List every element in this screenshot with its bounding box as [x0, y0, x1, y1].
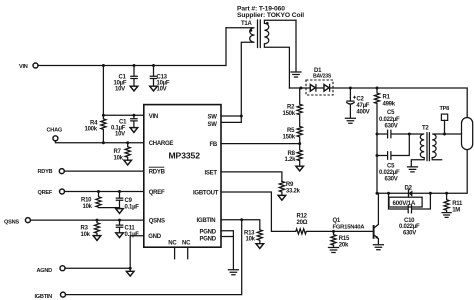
wire GND pin to AGND	[130, 236, 144, 269]
svg-text:T2: T2	[422, 125, 429, 131]
svg-text:VIN: VIN	[149, 114, 158, 120]
wire IGBTIN pin line	[221, 220, 260, 230]
svg-text:NC: NC	[182, 241, 191, 247]
svg-text:IGBTIN: IGBTIN	[35, 294, 53, 300]
wire HV top rail	[289, 88, 467, 118]
svg-text:NC: NC	[168, 241, 177, 247]
capacitor C1 0.1uF	[111, 115, 137, 137]
terminal RDYB	[38, 169, 65, 176]
node VIN-C1 junction	[102, 64, 105, 67]
wire lamp bottom	[377, 150, 467, 194]
ground arrow C11	[116, 233, 124, 238]
resistor R12 20ohm	[296, 214, 373, 234]
node R10-QREF junction	[97, 190, 100, 193]
svg-text:QSNS: QSNS	[4, 220, 19, 226]
capacitor C1 10uF	[114, 66, 138, 93]
svg-text:20k: 20k	[339, 242, 349, 248]
wire QREF line	[65, 191, 144, 193]
svg-text:R5: R5	[287, 128, 295, 134]
svg-text:R13: R13	[244, 230, 255, 236]
lamp CCFL tube	[462, 118, 473, 150]
wire IGBTOUT to gate	[221, 192, 296, 231]
svg-text:C10: C10	[404, 218, 415, 224]
svg-text:R1: R1	[383, 95, 391, 101]
capacitor C10 0.022uF	[389, 193, 431, 236]
wire PGND to ground	[221, 231, 233, 270]
node R7-CHARGE junction	[126, 141, 129, 144]
resistor R11 1M	[444, 193, 463, 213]
svg-text:1.2k: 1.2k	[285, 157, 297, 163]
diode D2	[405, 186, 413, 198]
wire ISET line	[221, 172, 282, 182]
svg-text:R12: R12	[297, 214, 308, 220]
svg-text:IGBTIN: IGBTIN	[197, 218, 216, 224]
resistor R7 10k	[114, 143, 131, 162]
svg-text:Supplier: TOKYO Coil: Supplier: TOKYO Coil	[237, 12, 304, 19]
svg-text:47µF: 47µF	[356, 103, 369, 109]
terminal QSNS	[4, 218, 30, 226]
svg-text:C2: C2	[356, 96, 364, 102]
svg-text:630V: 630V	[385, 177, 398, 183]
svg-text:RDYB: RDYB	[149, 169, 166, 175]
svg-text:10k: 10k	[246, 237, 256, 243]
transformer T1A	[226, 20, 296, 122]
wire QSNS line	[30, 219, 143, 221]
terminal AGND	[37, 266, 66, 274]
svg-text:QREF: QREF	[149, 190, 165, 196]
svg-text:QREF: QREF	[38, 190, 53, 196]
svg-text:AGND: AGND	[37, 268, 53, 274]
svg-text:IGBTOUT: IGBTOUT	[193, 190, 219, 196]
svg-text:QSNS: QSNS	[149, 218, 165, 224]
svg-text:630V: 630V	[403, 230, 416, 236]
node C13 junction	[152, 64, 155, 67]
svg-text:GND: GND	[148, 234, 162, 240]
node R11 junction	[445, 192, 448, 195]
op-amp U1 MP3352 IC body	[144, 105, 221, 248]
node T2 primary top	[408, 133, 411, 136]
ground arrow R3	[93, 236, 101, 241]
svg-text:R4: R4	[90, 120, 98, 126]
transistor Q1 FGR15N40A	[333, 193, 379, 244]
terminal QREF	[38, 189, 65, 196]
node SW junction	[240, 115, 243, 118]
wire VIN pin drop	[103, 66, 143, 116]
ground arrow C9	[116, 209, 124, 214]
svg-text:C5: C5	[387, 164, 395, 170]
node C10 left junction	[387, 192, 390, 195]
svg-text:499k: 499k	[383, 101, 396, 107]
node R3-QSNS junction	[96, 219, 99, 222]
node IGBTIN junction	[240, 218, 243, 221]
svg-text:0.022µF: 0.022µF	[379, 170, 400, 176]
ground C2	[345, 118, 355, 123]
svg-text:ISET: ISET	[205, 170, 218, 176]
svg-text:33.2k: 33.2k	[286, 188, 301, 194]
ground arrow R9	[278, 195, 286, 200]
resistor chain R2 R5 R8	[283, 88, 303, 166]
diode D1 BAV23S	[306, 68, 333, 95]
node FB junction	[298, 142, 301, 145]
resistor R4 100k	[85, 115, 107, 143]
svg-text:FGR15N40A: FGR15N40A	[333, 224, 366, 230]
node C1 junction	[133, 64, 136, 67]
node C1b junction	[132, 114, 135, 117]
svg-text:R2: R2	[287, 104, 295, 110]
node R1 junction	[376, 87, 379, 90]
svg-text:C9: C9	[125, 198, 133, 204]
svg-text:VIN: VIN	[19, 64, 28, 70]
svg-text:150k: 150k	[283, 134, 296, 140]
ground R15	[329, 248, 339, 253]
node R4-VIN pin junction	[102, 114, 105, 117]
ground PGND	[228, 270, 238, 275]
label D2 rating box	[389, 197, 422, 207]
node C5 upper branch	[376, 133, 379, 136]
terminal IGBTIN	[35, 292, 66, 300]
ground arrow R8	[296, 166, 304, 171]
svg-text:C5: C5	[387, 110, 395, 116]
svg-text:R15: R15	[339, 236, 350, 242]
node C2 junction	[349, 87, 352, 90]
svg-text:R7: R7	[114, 149, 122, 155]
wire SW pins to transformer	[221, 116, 241, 122]
terminal VIN	[19, 63, 38, 70]
svg-text:Q1: Q1	[333, 218, 341, 224]
svg-text:630V: 630V	[385, 123, 398, 129]
node R4-CHARGE junction	[102, 141, 105, 144]
svg-text:CHARGE: CHARGE	[149, 141, 174, 147]
svg-text:SW: SW	[208, 122, 218, 128]
svg-text:PGND: PGND	[200, 237, 217, 243]
wire C5 node vertical	[376, 134, 378, 193]
svg-text:SW: SW	[208, 114, 218, 120]
svg-text:PGND: PGND	[200, 229, 217, 235]
ground T2 primary	[408, 167, 418, 172]
svg-text:10k: 10k	[81, 232, 91, 238]
wire FB line	[221, 143, 300, 145]
wire RDYB line	[64, 170, 144, 172]
resistor R9 33.2k	[279, 181, 300, 195]
svg-text:1M: 1M	[452, 208, 460, 214]
svg-text:0.1µF: 0.1µF	[125, 205, 140, 211]
svg-text:10V: 10V	[115, 86, 125, 92]
node R2 chain top	[299, 87, 302, 90]
capacitor C11 0.1uF	[116, 220, 139, 238]
node TP8 junction	[443, 133, 446, 136]
svg-text:FB: FB	[210, 142, 218, 148]
svg-text:C1: C1	[119, 119, 127, 125]
transformer T2	[409, 125, 461, 166]
wire CHARGE line	[55, 141, 143, 143]
resistor R3 10k	[81, 220, 100, 238]
resistor R13 10k	[244, 230, 262, 244]
svg-text:0.022µF: 0.022µF	[379, 117, 400, 123]
svg-text:R10: R10	[81, 198, 92, 204]
svg-text:BAV23S: BAV23S	[313, 73, 332, 79]
ground T1A secondary top	[291, 20, 301, 77]
svg-text:10V: 10V	[115, 132, 125, 138]
resistor R1 499k	[374, 88, 395, 134]
svg-text:0.022µF: 0.022µF	[399, 224, 420, 230]
resistor R10 10k	[81, 192, 120, 211]
svg-text:R9: R9	[286, 182, 294, 188]
svg-text:RDYB: RDYB	[38, 169, 53, 175]
pin NC stubs	[175, 247, 188, 259]
resistor R15 20k	[331, 231, 350, 248]
svg-text:R8: R8	[288, 151, 296, 157]
ground Q1 emitter	[373, 245, 383, 250]
svg-text:10k: 10k	[83, 204, 93, 210]
ground R11	[442, 213, 451, 218]
ground arrow C1b	[130, 128, 138, 133]
capacitor C13 10uF	[150, 66, 170, 93]
svg-text:100k: 100k	[85, 127, 98, 133]
svg-text:TP8: TP8	[440, 106, 450, 112]
label Part number text	[237, 5, 304, 19]
capacitor C2 47uF	[347, 88, 370, 118]
capacitor C9 0.1uF	[116, 192, 139, 211]
node C9-QREF junction	[118, 190, 121, 193]
terminal CHAG	[47, 127, 62, 141]
svg-text:20Ω: 20Ω	[297, 220, 308, 226]
svg-text:600V/1A: 600V/1A	[393, 200, 416, 207]
ground arrow C13	[150, 86, 158, 91]
test point TP8	[440, 106, 450, 134]
svg-text:10k: 10k	[114, 155, 124, 161]
capacitor C5 upper 0.022uF	[377, 110, 409, 138]
svg-text:R11: R11	[452, 201, 463, 207]
ground arrow R7	[124, 160, 132, 165]
wire AGND line	[65, 267, 130, 269]
capacitor C5 lower 0.022uF	[377, 134, 409, 183]
wire VIN rail	[38, 28, 226, 66]
svg-text:150k: 150k	[283, 111, 296, 117]
svg-text:10V: 10V	[157, 86, 167, 92]
ground arrow C1	[130, 86, 138, 91]
svg-text:C11: C11	[125, 226, 136, 232]
node Q1 collector junction	[376, 192, 379, 195]
svg-text:MP3352: MP3352	[169, 150, 201, 160]
svg-text:R3: R3	[81, 226, 89, 232]
node R15 junction	[332, 230, 335, 233]
svg-text:T1A: T1A	[241, 21, 253, 27]
svg-text:400V: 400V	[356, 110, 369, 116]
node C11-QSNS junction	[118, 219, 121, 222]
ground arrow R13	[256, 244, 264, 249]
node AGND junction	[129, 267, 132, 270]
node C5 lower branch	[376, 154, 379, 157]
node C10 right junction	[429, 192, 432, 195]
wire IGBTIN rail	[66, 220, 242, 295]
ground arrow AGND	[129, 268, 131, 271]
svg-text:CHAG: CHAG	[47, 127, 62, 133]
svg-text:0.1µF: 0.1µF	[125, 232, 140, 238]
